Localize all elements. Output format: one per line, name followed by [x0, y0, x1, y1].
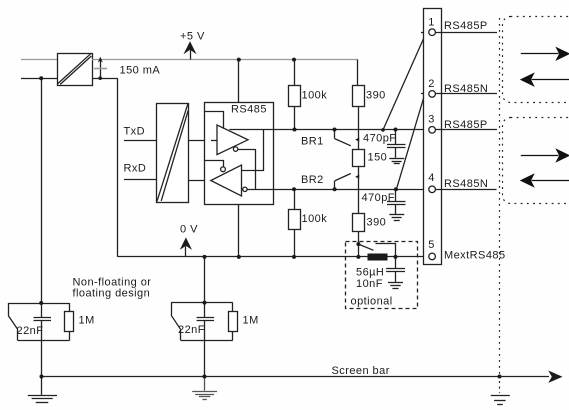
svg-text:1: 1 [428, 16, 435, 28]
svg-text:TxD: TxD [124, 125, 146, 137]
svg-text:optional: optional [351, 296, 393, 308]
svg-text:56µH: 56µH [356, 267, 384, 279]
svg-text:470pF: 470pF [362, 192, 395, 204]
svg-text:390: 390 [367, 217, 387, 229]
svg-text:floating design: floating design [73, 288, 151, 300]
svg-text:2: 2 [428, 78, 435, 90]
svg-text:4: 4 [428, 172, 435, 184]
svg-text:1M: 1M [243, 315, 259, 327]
svg-text:0 V: 0 V [180, 224, 198, 236]
svg-text:100k: 100k [302, 213, 328, 225]
svg-text:BR2: BR2 [301, 174, 324, 186]
svg-text:RxD: RxD [124, 162, 147, 174]
svg-text:470pF: 470pF [363, 133, 396, 145]
svg-text:RS485N: RS485N [444, 178, 488, 190]
svg-text:+5 V: +5 V [180, 31, 205, 43]
svg-text:RS485P: RS485P [444, 119, 488, 131]
svg-text:RS485P: RS485P [444, 20, 488, 32]
svg-text:100k: 100k [302, 90, 328, 102]
svg-text:390: 390 [366, 90, 386, 102]
svg-text:BR1: BR1 [301, 136, 324, 148]
svg-text:10nF: 10nF [356, 278, 383, 290]
svg-text:Screen bar: Screen bar [332, 365, 390, 377]
svg-text:1M: 1M [79, 315, 95, 327]
svg-text:150: 150 [368, 152, 388, 164]
svg-text:22nF: 22nF [17, 325, 44, 337]
svg-text:22nF: 22nF [178, 324, 205, 336]
svg-text:MextRS485: MextRS485 [444, 250, 506, 262]
svg-text:RS485N: RS485N [444, 83, 488, 95]
svg-text:RS485: RS485 [231, 104, 267, 116]
svg-text:150 mA: 150 mA [120, 65, 161, 77]
svg-text:5: 5 [428, 239, 435, 251]
svg-text:3: 3 [428, 114, 435, 126]
